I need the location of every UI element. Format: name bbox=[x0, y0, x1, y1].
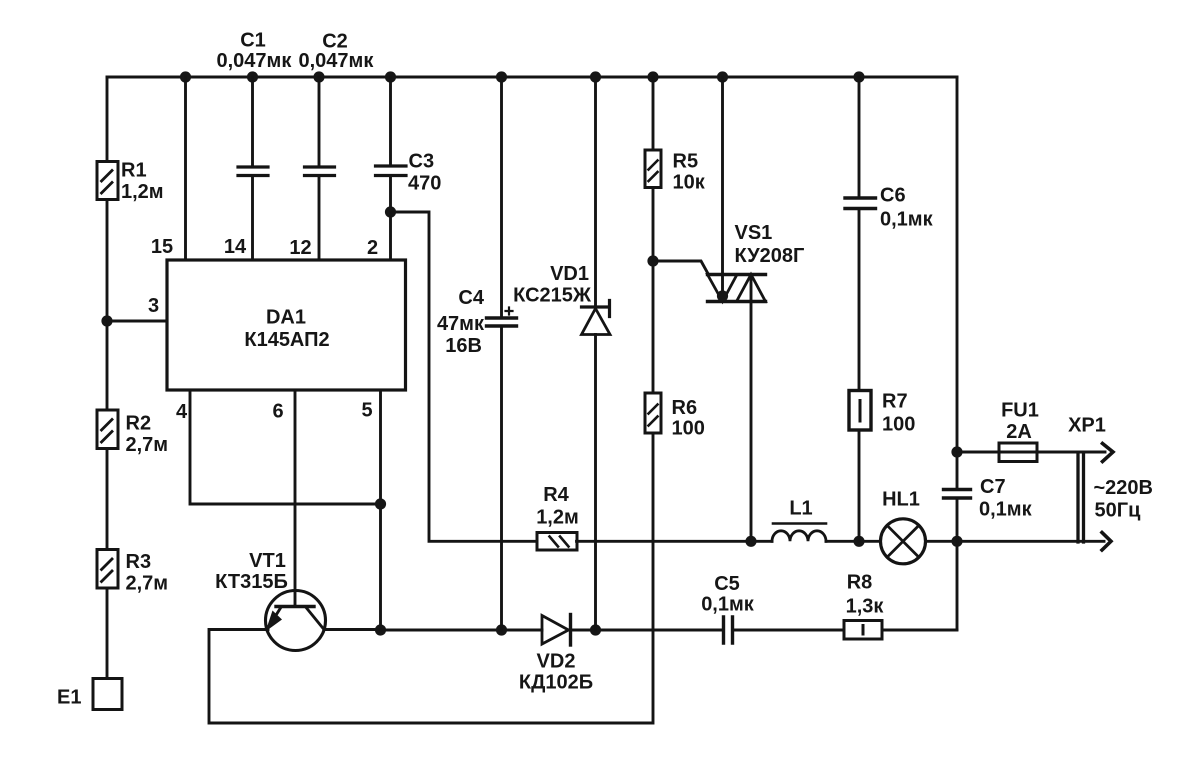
label XP1 bbox=[1068, 415, 1106, 437]
value label C4 47мк 16В bbox=[437, 287, 485, 357]
svg-text:КУ208Г: КУ208Г bbox=[735, 245, 805, 267]
node bus-C6 bbox=[853, 71, 864, 82]
diode VD2 bbox=[542, 615, 571, 646]
wire C6 to R7 bbox=[858, 209, 861, 391]
svg-text:C4: C4 bbox=[458, 287, 484, 309]
pin 5 label bbox=[361, 400, 372, 422]
svg-text:R5: R5 bbox=[673, 151, 699, 173]
pin 15 label bbox=[151, 236, 173, 258]
wire R8 to right rail bbox=[882, 629, 957, 632]
fuse FU1 bbox=[999, 443, 1037, 462]
node bus-R5 bbox=[647, 71, 658, 82]
label C6 0,1мк bbox=[880, 185, 934, 231]
label ~220В 50Гц bbox=[1094, 477, 1154, 522]
node C junction bbox=[375, 498, 386, 509]
resistor R6 bbox=[645, 393, 661, 433]
wire VT1 emitter to bottom rail to R6 bbox=[209, 433, 653, 723]
wire HL1 to XP1 lower pin bbox=[926, 540, 1105, 543]
value label R8 1,3к bbox=[846, 572, 885, 618]
svg-text:0,1мк: 0,1мк bbox=[701, 594, 755, 616]
node C7-main junction bbox=[951, 536, 962, 547]
node VS1-main junction bbox=[745, 536, 756, 547]
svg-text:47мк: 47мк bbox=[437, 313, 485, 335]
wire C2 to pin 12 bbox=[318, 176, 321, 261]
pin 12 label bbox=[289, 237, 311, 259]
value label R4 1,2м bbox=[536, 484, 579, 529]
capacitor C3 bbox=[376, 166, 407, 176]
node bus-C1 bbox=[247, 71, 258, 82]
zener diode VD1 bbox=[582, 301, 611, 335]
pin 2 label bbox=[367, 237, 378, 259]
label VD1 КС215Ж bbox=[513, 263, 592, 307]
connector XP1 bbox=[1078, 454, 1084, 543]
wire C4 to node F bbox=[500, 326, 503, 630]
node bus-C4 bbox=[496, 71, 507, 82]
wire fuse line bbox=[957, 451, 1105, 454]
svg-text:12: 12 bbox=[289, 237, 311, 259]
svg-text:VT1: VT1 bbox=[249, 550, 286, 572]
value label R1 1,2м bbox=[121, 160, 164, 204]
svg-text:15: 15 bbox=[151, 236, 173, 258]
wire left rail from bus to R1 bbox=[106, 77, 109, 162]
wire R1 to node A bbox=[106, 200, 109, 322]
svg-text:C7: C7 bbox=[980, 476, 1006, 498]
svg-text:2,7м: 2,7м bbox=[126, 573, 169, 595]
wire bus to C6 bbox=[858, 77, 861, 198]
svg-text:100: 100 bbox=[882, 414, 915, 436]
resistor R1 bbox=[97, 162, 118, 200]
svg-text:5: 5 bbox=[361, 400, 372, 422]
value label C1 0,047мк bbox=[217, 50, 293, 72]
node fuse junction bbox=[951, 446, 962, 457]
pin 14 label bbox=[224, 236, 247, 258]
wire R7 to main line bbox=[858, 430, 861, 541]
value label R3 2,7м bbox=[126, 551, 169, 595]
sensor electrode E1 bbox=[93, 679, 122, 710]
label VD2 КД102Б bbox=[519, 651, 593, 694]
svg-text:1,2м: 1,2м bbox=[536, 507, 579, 529]
pin 3 label bbox=[148, 295, 159, 317]
value label C2 0,047мк bbox=[299, 50, 375, 72]
svg-text:~220В: ~220В bbox=[1094, 477, 1154, 499]
svg-text:6: 6 bbox=[272, 401, 283, 423]
node VS1 anode junction bbox=[717, 290, 728, 301]
node G junction gate bbox=[647, 255, 658, 266]
label C7 0,1мк bbox=[979, 476, 1033, 521]
svg-text:0,047мк: 0,047мк bbox=[299, 50, 375, 72]
node A junction bbox=[101, 315, 112, 326]
transistor VT1 bbox=[266, 591, 326, 651]
svg-text:R8: R8 bbox=[847, 572, 873, 594]
resistor R2 bbox=[97, 410, 118, 449]
value label R2 2,7м bbox=[126, 413, 169, 457]
wire VT1 collector to node D bbox=[324, 628, 381, 631]
svg-text:16В: 16В bbox=[445, 335, 482, 357]
svg-text:КД102Б: КД102Б bbox=[519, 672, 593, 694]
node D junction bbox=[375, 624, 386, 635]
node bus-VS1 bbox=[717, 71, 728, 82]
pin 6 label bbox=[272, 401, 283, 423]
svg-text:C3: C3 bbox=[409, 151, 435, 173]
value label R5 10к bbox=[673, 151, 706, 194]
wire node B to R4 bbox=[391, 212, 538, 541]
svg-text:XP1: XP1 bbox=[1068, 415, 1106, 437]
svg-text:3: 3 bbox=[148, 295, 159, 317]
node bus-C3 bbox=[385, 71, 396, 82]
capacitor C4 polarized bbox=[487, 308, 517, 327]
label L1 bbox=[789, 498, 812, 520]
svg-text:C1: C1 bbox=[240, 30, 266, 52]
svg-text:4: 4 bbox=[176, 401, 188, 423]
value label R7 100 bbox=[882, 391, 915, 436]
wire C1 to pin 14 bbox=[251, 176, 254, 261]
wire pin 6 to VT1 base bbox=[294, 390, 297, 607]
wire VS1 to main line bbox=[750, 275, 753, 542]
value label R6 100 bbox=[672, 397, 705, 440]
svg-text:50Гц: 50Гц bbox=[1095, 500, 1142, 522]
wire node A to R2 bbox=[106, 321, 109, 410]
label VT1 КТ315Б bbox=[215, 550, 288, 593]
IC DA1 bbox=[167, 260, 406, 390]
wire R5 to R6 bbox=[652, 188, 655, 394]
svg-text:R7: R7 bbox=[882, 391, 908, 413]
svg-text:0,047мк: 0,047мк bbox=[217, 50, 293, 72]
capacitor C5 bbox=[724, 617, 733, 643]
wire top supply bus bbox=[107, 76, 957, 79]
wire bus to C3 bbox=[389, 77, 392, 166]
resistor R8 bbox=[844, 621, 882, 640]
wire R4 line to main line bbox=[577, 540, 773, 543]
svg-text:DA1: DA1 bbox=[266, 307, 306, 329]
label VS1 КУ208Г bbox=[735, 222, 805, 267]
resistor R3 bbox=[97, 550, 118, 589]
resistor R4 bbox=[537, 533, 577, 551]
svg-text:2,7м: 2,7м bbox=[126, 434, 169, 456]
inductor L1 bbox=[772, 524, 826, 542]
capacitor C1 bbox=[238, 167, 268, 176]
capacitor C2 bbox=[305, 167, 335, 176]
svg-text:1,2м: 1,2м bbox=[121, 181, 164, 203]
svg-text:C6: C6 bbox=[880, 185, 906, 207]
wire bus to C2 bbox=[318, 77, 321, 167]
svg-text:14: 14 bbox=[224, 236, 247, 258]
wire bus to C1 bbox=[251, 77, 254, 167]
wire VD1 to node E bbox=[594, 335, 597, 631]
capacitor C7 bbox=[944, 490, 971, 499]
pin 4 label bbox=[176, 401, 188, 423]
node bus-C2 bbox=[313, 71, 324, 82]
svg-text:VD1: VD1 bbox=[550, 263, 589, 285]
lamp HL1 bbox=[881, 519, 926, 564]
svg-text:К145АП2: К145АП2 bbox=[244, 329, 329, 351]
wire pin 15 bbox=[184, 77, 187, 260]
svg-text:10к: 10к bbox=[673, 172, 706, 194]
label C1 bbox=[240, 30, 266, 52]
label C3 bbox=[408, 151, 441, 195]
wire R3 to E1 bbox=[106, 588, 109, 679]
wire right rail top bbox=[956, 77, 959, 490]
wire gate to VS1 bbox=[653, 261, 709, 275]
svg-text:VD2: VD2 bbox=[537, 651, 576, 673]
wire pin 4 to node C bbox=[190, 390, 381, 504]
arrow upper bbox=[1103, 444, 1114, 462]
wire R2 to R3 bbox=[106, 449, 109, 550]
node B junction bbox=[385, 206, 396, 217]
svg-text:L1: L1 bbox=[789, 498, 812, 520]
label DA1 К145АП2 bbox=[244, 307, 329, 352]
triac VS1 bbox=[708, 275, 766, 302]
wire VD2 to C5 bbox=[571, 629, 724, 632]
svg-text:VS1: VS1 bbox=[735, 222, 773, 244]
capacitor C6 bbox=[845, 198, 876, 209]
wire L1 to HL1 bbox=[826, 540, 881, 543]
arrow lower bbox=[1102, 533, 1111, 551]
label E1 bbox=[57, 687, 81, 709]
svg-text:0,1мк: 0,1мк bbox=[880, 209, 934, 231]
node bus-pin15 bbox=[180, 71, 191, 82]
svg-text:КТ315Б: КТ315Б bbox=[215, 571, 288, 593]
svg-text:КС215Ж: КС215Ж bbox=[513, 285, 592, 307]
label FU1 2A bbox=[1001, 400, 1039, 444]
wire bus to R5 bbox=[652, 77, 655, 150]
svg-text:FU1: FU1 bbox=[1001, 400, 1039, 422]
wire bus to C4 bbox=[500, 77, 503, 318]
resistor R5 bbox=[645, 150, 661, 188]
wire node D to VD2 bbox=[381, 629, 543, 632]
wire pin 2 bbox=[389, 212, 392, 260]
svg-text:HL1: HL1 bbox=[882, 489, 920, 511]
svg-text:100: 100 bbox=[672, 418, 705, 440]
label HL1 bbox=[882, 489, 920, 511]
label C2 bbox=[322, 31, 348, 53]
wire bus to VS1 bbox=[721, 77, 724, 302]
svg-text:R3: R3 bbox=[126, 551, 152, 573]
svg-text:2: 2 bbox=[367, 237, 378, 259]
svg-text:C5: C5 bbox=[714, 573, 740, 595]
svg-text:E1: E1 bbox=[57, 687, 81, 709]
svg-text:R1: R1 bbox=[121, 160, 147, 182]
wire C3 to node B bbox=[389, 176, 392, 213]
wire C5 to R8 bbox=[733, 629, 845, 632]
svg-text:2A: 2A bbox=[1006, 421, 1032, 443]
node R7-main junction bbox=[853, 536, 864, 547]
svg-text:470: 470 bbox=[408, 173, 441, 195]
svg-text:1,3к: 1,3к bbox=[846, 596, 885, 618]
svg-text:R6: R6 bbox=[672, 397, 698, 419]
wire pin 3 to node A bbox=[107, 320, 167, 323]
svg-text:R4: R4 bbox=[543, 484, 569, 506]
wire C7 to main line and R8 return bbox=[956, 498, 959, 630]
svg-text:R2: R2 bbox=[126, 413, 152, 435]
label C5 0,1мк bbox=[701, 573, 755, 616]
svg-text:0,1мк: 0,1мк bbox=[979, 499, 1033, 521]
resistor R7 bbox=[849, 391, 871, 431]
wire bus to VD1 bbox=[594, 77, 597, 307]
wire pin 5 down bbox=[379, 390, 382, 630]
node F junction bbox=[496, 624, 507, 635]
node bus-VD1 bbox=[590, 71, 601, 82]
node E junction bbox=[590, 624, 601, 635]
